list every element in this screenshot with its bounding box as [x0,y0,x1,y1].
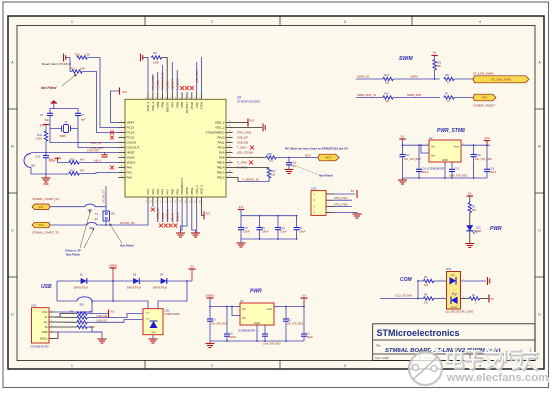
svg-text:100nF: 100nF [307,337,314,339]
svg-text:GND: GND [442,158,448,162]
wire [469,213,471,226]
svg-text:OSC_IN: OSC_IN [91,141,101,145]
svg-text:820: 820 [472,209,477,212]
svg-text:PB7: PB7 [170,101,174,107]
svg-text:24: 24 [180,201,182,203]
wire vin [403,139,430,145]
capacitor C6 [296,216,298,228]
svg-text:GND: GND [151,332,156,334]
svg-text:LD3985M33R: LD3985M33R [238,329,255,333]
wire [276,157,318,159]
svg-text:3V3: 3V3 [122,90,127,94]
wire r9 to pull [87,313,108,315]
svg-text:PB8: PB8 [161,101,165,107]
svg-text:Size: A4(M): Size: A4(M) [375,356,389,360]
ground u1 [209,341,211,343]
svg-text:4: 4 [121,136,122,138]
x mark pa1 [110,166,114,170]
svg-text:Inh: Inh [242,316,246,320]
svg-text:USB_DM: USB_DM [237,141,249,145]
capacitor C10 [277,216,279,228]
svg-text:PWR: PWR [250,289,262,295]
svg-text:15: 15 [156,201,158,203]
svg-text:29: 29 [228,156,230,158]
svg-text:Vin: Vin [431,144,435,148]
ground mcu2 [191,233,200,237]
svg-text:VSSA: VSSA [127,156,135,160]
esd protection DZ1 body [143,309,163,335]
power 5V led [467,195,473,197]
wire [79,173,118,174]
svg-text:LD3985M33R: LD3985M33R [427,167,444,171]
svg-text:Not Fitted: Not Fitted [66,253,80,257]
svg-text:10nF_X7R_0603: 10nF_X7R_0603 [449,175,468,178]
wire led to bar [461,280,486,282]
wire com row1 [418,280,423,282]
connector CN1 body [32,308,50,343]
svg-text:BOOT0: BOOT0 [166,101,170,112]
wire [106,204,148,226]
svg-text:100nF: 100nF [243,232,250,234]
wire [434,70,436,79]
svg-text:PA2: PA2 [127,176,133,180]
svg-text:8pF: 8pF [45,119,50,122]
wire [95,207,106,211]
svg-text:PWR: PWR [490,226,502,232]
watermark [409,347,550,386]
svg-text:680: 680 [437,65,442,68]
resistor R5 id [55,326,77,328]
resistor R18 [266,156,276,159]
svg-text:VCC: VCC [42,310,48,314]
svg-text:Tbd: Tbd [292,165,297,168]
svg-text:D+: D+ [44,320,48,324]
svg-text:5V: 5V [401,135,405,139]
svg-text:PB14: PB14 [217,166,225,170]
wire esd gnd [152,335,154,339]
wire xtal right [71,122,79,129]
svg-text:JTMS/SWDIO: JTMS/SWDIO [206,131,225,135]
sheet inner frame [17,26,535,361]
diode D3 [133,278,139,284]
svg-text:ST_LINK_SWIM: ST_LINK_SWIM [473,72,494,76]
wire inh u1 [232,307,240,316]
svg-text:510: 510 [424,284,429,287]
arrow to jp1 [110,224,122,244]
mcu top pins [146,93,204,114]
svg-text:13: 13 [146,201,148,203]
svg-text:U2: U2 [429,136,433,140]
power 5V u1 out [301,297,308,299]
svg-text:10: 10 [120,166,122,168]
svg-text:PB9: PB9 [156,101,160,107]
mcu left pins [119,121,140,180]
svg-text:21: 21 [165,201,167,203]
wire vcc pin [55,311,92,313]
capacitor C8 [209,307,211,319]
no-connect X marks [180,86,184,90]
svg-text:100nF: 100nF [490,171,497,174]
svg-text:330: 330 [385,100,390,103]
svg-text:40: 40 [185,97,187,99]
ground c13 [285,170,294,174]
svg-text:R12: R12 [70,169,75,172]
svg-text:1uF_X7R_0603: 1uF_X7R_0603 [475,158,492,161]
svg-text:PC15: PC15 [127,136,135,140]
svg-text:R21: R21 [445,74,450,77]
port PC3 [32,222,50,228]
svg-text:SWIM: SWIM [399,56,413,62]
svg-text:VSS_1: VSS_1 [195,185,199,195]
svg-text:COM: COM [400,277,413,283]
capacitor C2 [303,307,305,334]
svg-text:USBUF02W6: USBUF02W6 [165,313,181,316]
gnd bus u1 [210,340,304,342]
svg-text:3: 3 [344,20,346,24]
svg-text:39: 39 [190,97,192,99]
capacitor C1 [285,307,287,319]
wire vout [461,144,490,146]
resistor R15 [72,70,82,73]
resistor R2 [468,202,471,212]
wire [82,72,118,133]
x marks bottom [159,224,163,228]
ground esd [149,339,158,343]
vertical join [417,281,419,299]
svg-text:R6: R6 [153,51,157,55]
wire [469,230,471,243]
usb top rail [57,280,192,282]
x mark pa4 [151,208,155,212]
resistor R7 [444,96,454,99]
ground mcu1 [176,233,185,237]
gnd bus [403,177,488,179]
svg-text:CN2: CN2 [311,187,317,191]
svg-text:5V: 5V [433,51,437,55]
svg-text:JP1: JP1 [111,213,116,216]
svg-text:43: 43 [175,97,177,99]
svg-text:STM_JTMS: STM_JTMS [151,76,155,90]
capacitor C15 [240,216,242,228]
svg-text:VDD_1: VDD_1 [200,184,204,194]
ground c14 [45,176,47,178]
svg-text:STM8AL_USART_TX: STM8AL_USART_TX [32,231,59,235]
wire [454,78,473,80]
resistor R19 [69,161,79,164]
wire bundle above mcu [147,61,149,93]
svg-text:T_JTMS: T_JTMS [237,161,247,165]
ground caps row [240,239,242,243]
svg-text:PA4: PA4 [151,189,155,195]
svg-text:1: 1 [71,20,73,24]
wire com row2 [380,298,423,300]
svg-text:RED: RED [476,230,481,233]
wires to gnd2 [192,204,196,233]
svg-text:PA5: PA5 [156,189,160,195]
port MCO [318,154,339,161]
svg-text:GND: GND [254,321,260,325]
diode D4 [161,278,167,284]
svg-text:28: 28 [228,161,230,163]
port ST_LINK_SWIM [473,76,529,83]
svg-text:Board ident: PC13=0: Board ident: PC13=0 [42,62,71,66]
svg-text:14: 14 [151,201,153,203]
svg-text:C12: C12 [455,168,460,171]
svg-text:JTDI: JTDI [195,102,199,108]
svg-text:TX: TX [95,213,98,216]
svg-text:PA8: PA8 [219,156,225,160]
svg-text:OSCIN: OSCIN [127,141,137,145]
wire rail to esd [92,301,148,309]
svg-text:100nF: 100nF [280,232,287,234]
svg-text:PWR_STM8: PWR_STM8 [437,128,465,134]
wire inh [421,145,429,153]
svg-text:T_SWIM: T_SWIM [163,213,165,222]
svg-text:SWIM_RST_IN: SWIM_RST_IN [357,93,376,97]
svg-text:Vout: Vout [454,144,460,148]
svg-text:11: 11 [121,171,123,173]
wire gnd cn1 [55,331,102,333]
svg-text:510: 510 [424,301,429,304]
svg-text:C11: C11 [405,154,410,157]
power USB5V u1 [207,297,214,299]
resistor R1 [469,297,479,300]
svg-text:100: 100 [271,174,276,177]
svg-text:Inh: Inh [431,153,435,157]
wire [434,280,446,282]
svg-text:R13: R13 [384,74,389,77]
svg-text:Not Fitted: Not Fitted [120,244,134,248]
power 5V [431,55,437,57]
wire [480,298,489,300]
svg-text:41: 41 [180,97,182,99]
svg-text:PB6: PB6 [175,101,179,107]
resistor R3 com [423,297,433,300]
capacitor C13 tbd [288,158,290,163]
wire esd right pin to rail [158,281,187,309]
svg-text:3V3: 3V3 [250,119,255,123]
svg-text:PA9: PA9 [219,151,225,155]
ground led [465,244,474,248]
wire [434,56,436,60]
svg-text:PC3: PC3 [39,224,44,227]
svg-text:DZ1: DZ1 [165,309,171,313]
svg-text:5V: 5V [302,294,305,298]
svg-text:35: 35 [228,126,230,128]
svg-text:T_SWO: T_SWO [237,146,247,150]
svg-text:PC2: PC2 [39,206,44,209]
svg-text:RST: RST [482,96,488,100]
svg-text:C15: C15 [243,227,248,230]
svg-text:USB_DM: USB_DM [97,314,108,318]
wire vdd1 3v3 [202,204,204,216]
svg-text:USB_PULL: USB_PULL [195,69,199,83]
svg-text:SWIM_RST_IN: SWIM_RST_IN [161,72,165,90]
svg-text:STM_JTMS: STM_JTMS [237,131,251,135]
svg-text:STM_RST: STM_RST [87,148,100,152]
svg-text:Title:: Title: [376,343,382,347]
svg-text:7: 7 [121,151,122,153]
svg-text:R15: R15 [70,67,75,71]
resistor R20 [433,60,436,70]
svg-text:STM_TX: STM_TX [173,212,175,222]
svg-text:1: 1 [121,121,122,123]
svg-text:R14: R14 [384,93,389,96]
svg-text:STM8AF_RESET: STM8AF_RESET [473,104,495,108]
power 5V in [399,138,405,140]
power bar com [488,277,490,285]
svg-text:3: 3 [344,364,346,368]
wire t_swdio_in [241,178,269,181]
svg-text:RC Must be very close to STM32: RC Must be very close to STM32F103 pin 2… [285,147,348,151]
svg-text:OSCOUT: OSCOUT [127,146,140,150]
svg-text:USB5V: USB5V [109,264,118,268]
svg-text:R18: R18 [267,153,272,156]
svg-text:19: 19 [156,97,158,99]
wire [393,97,440,99]
power 3V3 r16 [43,124,49,126]
svg-text:30: 30 [228,151,230,153]
svg-text:STM8AL_USART_RX: STM8AL_USART_RX [32,197,59,201]
resistor R13 [77,56,87,59]
wire pa8 mco [233,157,266,159]
capacitor C9 [259,216,261,228]
svg-text:VSS_3: VSS_3 [151,101,155,111]
svg-text:31: 31 [228,146,230,148]
svg-text:STMicroelectronics: STMicroelectronics [377,328,460,338]
ground [402,178,404,180]
svg-text:9: 9 [121,161,122,163]
mcu right pins [206,121,233,180]
svg-text:VBAT: VBAT [127,121,135,125]
svg-text:R19: R19 [70,158,75,161]
svg-text:C14: C14 [35,156,40,159]
wire sb1 to vcc [80,301,92,312]
cn2 pin wires [326,194,334,213]
svg-text:D-: D- [45,315,48,319]
esd zener symbol [150,321,158,328]
svg-text:18: 18 [151,97,153,99]
svg-text:100K: 100K [153,61,159,65]
power 5V rail end [189,268,196,270]
svg-text:USB: USB [41,284,52,290]
svg-text:T_SWDIO: T_SWDIO [175,78,179,90]
svg-text:17: 17 [146,97,148,99]
svg-text:1K5: 1K5 [89,310,94,313]
svg-text:2: 2 [211,364,213,368]
svg-text:PA3: PA3 [146,189,150,195]
resistor R9 [55,314,77,318]
wire cn2 gnd [334,213,357,214]
svg-text:2: 2 [211,20,213,24]
resistor R6 [151,56,161,59]
wire [66,57,70,59]
capacitor C14 [45,153,47,156]
svg-text:STM32F103CBT6: STM32F103CBT6 [237,100,261,104]
svg-text:3V3: 3V3 [239,206,244,209]
wire pb13 r17 [233,167,270,169]
svg-text:32: 32 [228,141,230,143]
svg-text:100nF: 100nF [422,171,429,174]
svg-text:PB1: PB1 [175,188,179,194]
wire [393,78,440,80]
svg-text:4K7: 4K7 [80,158,85,161]
svg-text:100nF: 100nF [299,232,306,234]
svg-text:100K: 100K [36,138,42,141]
svg-text:RED: RED [451,275,456,277]
wire [162,58,168,93]
svg-text:www.elecfans.com: www.elecfans.com [446,372,549,384]
svg-text:PA11: PA11 [218,141,225,145]
svg-text:STLINK_TX: STLINK_TX [103,189,106,203]
wire led right row2 [461,298,469,300]
svg-text:Not Fitted: Not Fitted [319,174,333,178]
svg-text:3: 3 [121,131,122,133]
svg-text:5V: 5V [468,192,472,196]
wire [45,141,47,152]
resistor R13 swim [383,77,393,80]
power symbol xtal [51,102,57,104]
power 3V3 vdd2 [233,122,249,124]
led LD1 [466,225,473,231]
svg-text:USB5V: USB5V [206,294,215,298]
x marks pc14 pc15 [110,131,114,135]
svg-text:48: 48 [199,201,201,203]
resistor R22 usb dp [55,321,77,323]
resistor R12 [69,172,79,175]
svg-text:27: 27 [228,166,230,168]
wire [97,224,107,226]
capacitor C7 [75,112,81,114]
svg-text:1uF_X7R_0603: 1uF_X7R_0603 [211,323,228,325]
usb5v riser down [112,281,114,301]
wire rail down left [56,281,58,301]
title block frame [373,324,535,361]
svg-text:47: 47 [195,201,197,203]
svg-text:MCO: MCO [325,156,331,160]
capacitor C12 [451,162,453,169]
svg-text:Vin: Vin [242,307,246,311]
svg-text:2: 2 [121,126,122,128]
capacitor C11 [402,145,404,154]
svg-text:34: 34 [228,131,230,133]
wire r6 top rail [147,58,149,62]
capacitor C7b [264,325,266,334]
svg-text:4: 4 [479,20,481,24]
wire [50,224,87,226]
svg-text:MCO: MCO [305,153,311,157]
svg-text:ST1046B-05-FM: ST1046B-05-FM [30,346,48,349]
nrst red cap [102,155,108,157]
wire [454,97,473,99]
svg-text:Vout: Vout [267,307,273,311]
svg-text:23: 23 [175,201,177,203]
wire [143,57,148,59]
svg-text:4K7: 4K7 [80,169,85,172]
wire [50,206,85,208]
power 3V3 ain [57,158,59,161]
wire vin u1 [210,298,240,307]
svg-text:U1: U1 [240,299,244,303]
svg-text:25: 25 [185,201,187,203]
svg-text:VDD_2: VDD_2 [215,121,225,125]
power 3V3 vbat [119,88,121,95]
net label USB_DM usb [87,317,96,319]
power USB5V rail [110,267,117,269]
svg-text:SWIM_RST: SWIM_RST [407,93,422,97]
svg-text:8MHz: 8MHz [60,135,67,138]
svg-text:Not Fitted: Not Fitted [41,86,57,90]
